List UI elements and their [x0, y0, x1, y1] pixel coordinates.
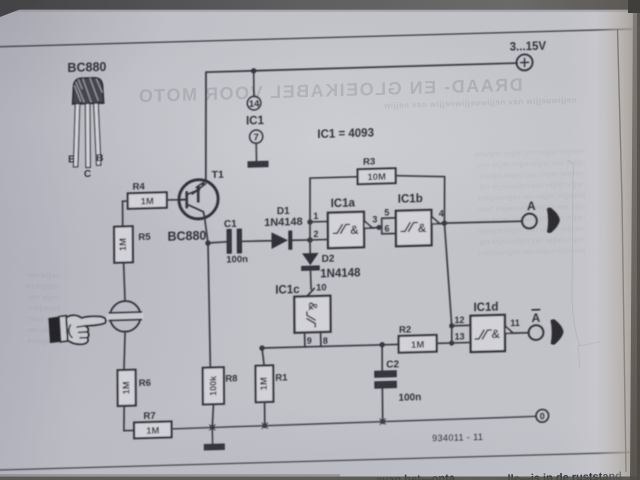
output flag pin10: [307, 288, 315, 296]
wire D1 to pin2 node: [292, 239, 310, 242]
diode D2 1N4148: [301, 253, 320, 271]
wire bracket pins 5/6: [379, 218, 396, 234]
output flag pin11: [505, 326, 513, 334]
right frame rule of article: [618, 29, 627, 472]
wire R3 left lead: [310, 177, 358, 178]
node T1/C1: [205, 240, 210, 246]
wire pin7 to ground bar: [255, 143, 257, 161]
wire pin13 lead: [452, 342, 471, 345]
transistor T1 (BC880 darlington): [179, 179, 218, 219]
wire T1 node to C1: [208, 242, 227, 243]
resistor R7: [134, 421, 171, 438]
wire pin4 to node: [440, 222, 445, 225]
wire output A: [444, 221, 522, 223]
wire R4 to T1 base: [167, 199, 179, 201]
pointing hand icon: [48, 314, 105, 345]
wire R1 top to node: [262, 348, 264, 366]
junction C2/ground rail: [380, 419, 386, 425]
output flag pin3: [364, 220, 372, 228]
ground rail 0V: [171, 416, 536, 429]
node pin12: [449, 323, 454, 328]
resistor R4: [128, 192, 167, 208]
wire pin8 lead: [320, 332, 322, 347]
wire pins 9/8 rail: [262, 344, 399, 348]
faint facing-page fold lines right side: [567, 160, 580, 346]
node R1 / pin9 line: [259, 345, 264, 351]
wire pin3 to node: [372, 226, 379, 228]
wire pin12-pin13 stub: [451, 326, 453, 343]
ground symbol below R8: [204, 443, 225, 450]
resistor R8: [203, 367, 224, 404]
arrow A-bar: [551, 319, 564, 345]
wire pin2 lead: [310, 238, 328, 241]
node supply/IC1 junction: [251, 68, 256, 74]
supply rail 3...15V: [206, 63, 517, 72]
terminal 0: [536, 409, 549, 422]
wire pin11 to terminal: [513, 332, 529, 335]
node pin13: [449, 340, 454, 345]
NAND gate IC1a: [328, 212, 364, 248]
wire pin12 lead: [452, 324, 471, 327]
wire IC1 supply stub: [253, 71, 255, 97]
node pin2: [307, 237, 312, 243]
label A-bar: [532, 310, 541, 325]
junction R1/ground rail: [262, 423, 268, 429]
wire pin1 lead: [310, 220, 328, 222]
node pin3/5/6: [376, 225, 381, 230]
wire node to C2: [381, 345, 383, 371]
NAND gate IC1c: [294, 296, 330, 333]
resistor R5: [114, 226, 133, 263]
NAND gate IC1d: [470, 315, 505, 352]
node C2/R2: [379, 342, 384, 348]
wire D2 to IC1c pin10: [309, 271, 312, 290]
supply terminal +: [517, 54, 533, 70]
BC880 package drawing (TO-92 case): [72, 78, 104, 168]
node pin4/A/feedback: [442, 220, 447, 226]
wire pin9 lead: [304, 332, 306, 347]
resistor R2: [399, 335, 437, 353]
wire supply to T1 collector: [205, 72, 206, 182]
IC1 pin 14: [247, 96, 261, 110]
wire C2 to ground rail: [381, 388, 383, 421]
wire touch contact to R6: [124, 332, 126, 370]
wire R3 right lead and feedback: [396, 174, 452, 327]
resistor R3: [358, 168, 396, 184]
node pin1: [307, 219, 312, 225]
junction R8/ground rail: [209, 425, 215, 431]
diode D1 1N4148: [271, 230, 292, 250]
touch contact sensor: [107, 301, 144, 333]
IC1 pin 7: [250, 130, 263, 144]
arrow A: [547, 207, 560, 233]
wire to ground symbol: [211, 427, 213, 443]
wire R4 to R5: [123, 201, 128, 226]
ghost show-through headline (reverse page): [25, 75, 586, 346]
output flag pin4: [431, 216, 439, 224]
wire R8 to ground rail: [212, 404, 213, 427]
wire R1 to ground rail: [264, 402, 266, 426]
wire R5 to touch contact: [124, 262, 125, 301]
NAND gate IC1b: [396, 210, 432, 246]
ground bar IC1 pin7: [248, 161, 269, 168]
capacitor C1: [227, 229, 243, 254]
wire R2 right to pin13 node: [437, 342, 452, 345]
wire R3 leg down through pin1/pin2 nodes: [309, 178, 312, 240]
terminal A: [522, 213, 537, 228]
wire pin2 node to D2: [309, 240, 311, 253]
wire T1 emitter down to R8: [204, 216, 210, 368]
terminal A-bar: [529, 325, 544, 340]
wire C1 to D1: [242, 241, 272, 242]
resistor R6: [118, 370, 136, 406]
capacitor C2: [374, 370, 397, 389]
resistor R1: [256, 365, 274, 402]
wire R6 to R7: [124, 406, 134, 431]
